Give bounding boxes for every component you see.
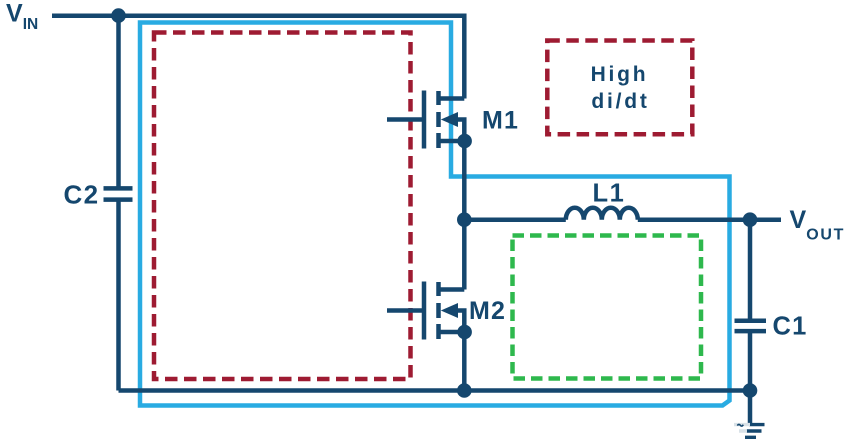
wire: C1 to ground rail and ground stem bbox=[748, 331, 753, 423]
node: M2 source/bulk bbox=[457, 325, 472, 340]
node: C1 at ground rail bbox=[743, 383, 758, 398]
wire: inductor to VOUT bbox=[638, 217, 781, 222]
node: VIN junction bbox=[111, 8, 126, 23]
transistor M1: source stub bbox=[439, 139, 465, 144]
svg-text:di/dt: di/dt bbox=[591, 90, 649, 113]
wire: bottom ground rail bbox=[119, 388, 751, 393]
wire: VOUT rail down to C1 bbox=[748, 220, 753, 321]
node: VOUT bbox=[743, 212, 758, 227]
capacitor C2 plates bbox=[104, 188, 133, 199]
node: M2 source at ground rail bbox=[457, 383, 472, 398]
transistor M2: gate bar bbox=[422, 282, 427, 340]
wire: M1 source to switch node bbox=[462, 141, 467, 220]
transistor M1: gate lead bbox=[387, 117, 424, 122]
svg-text:C1: C1 bbox=[773, 313, 808, 341]
high di/dt loop box (large red dashed) bbox=[154, 33, 411, 380]
transistor M1: body-diode arrow bbox=[441, 112, 458, 127]
wire: M2 source to ground rail bbox=[462, 332, 467, 391]
transistor M2: body-diode arrow bbox=[441, 303, 458, 318]
capacitor C1 plates bbox=[735, 321, 767, 331]
wire: VIN top rail bbox=[52, 16, 464, 99]
svg-text:L1: L1 bbox=[593, 180, 626, 208]
node: switch node bbox=[457, 212, 472, 227]
transistor M2: drain stub bbox=[439, 287, 465, 292]
transistor M2: source stub bbox=[439, 330, 465, 335]
node: M1 source/bulk bbox=[457, 134, 472, 149]
wire: left rail upper (VIN node to C2) bbox=[116, 16, 121, 189]
transistor M1: gate bar bbox=[422, 91, 427, 149]
transistor M2: bulk connection bbox=[455, 311, 464, 333]
wire: left rail lower (C2 to ground rail) bbox=[116, 200, 121, 391]
transistor M2: gate lead bbox=[387, 308, 424, 313]
transistor M1: channel segments bbox=[436, 91, 441, 148]
svg-text:High: High bbox=[591, 63, 649, 86]
inductor L1 bbox=[566, 208, 638, 220]
low di/dt loop box (green dashed) bbox=[513, 236, 702, 379]
high di/dt label box (red dashed) bbox=[547, 41, 692, 135]
svg-text:C2: C2 bbox=[64, 180, 100, 210]
hot loop highlight (cyan outline) bbox=[140, 23, 730, 406]
transistor M1: bulk connection bbox=[455, 120, 464, 142]
svg-text:M2: M2 bbox=[469, 297, 506, 325]
svg-text:VIN: VIN bbox=[6, 0, 38, 33]
ground symbol bbox=[745, 425, 765, 438]
transistor M1: drain stub bbox=[439, 96, 465, 101]
wire: switch node to M2 drain bbox=[462, 220, 467, 290]
svg-text:VOUT: VOUT bbox=[790, 206, 846, 244]
svg-text:M1: M1 bbox=[482, 107, 519, 135]
wire: switch node to inductor bbox=[464, 217, 566, 222]
transistor M2: channel segments bbox=[436, 282, 441, 339]
